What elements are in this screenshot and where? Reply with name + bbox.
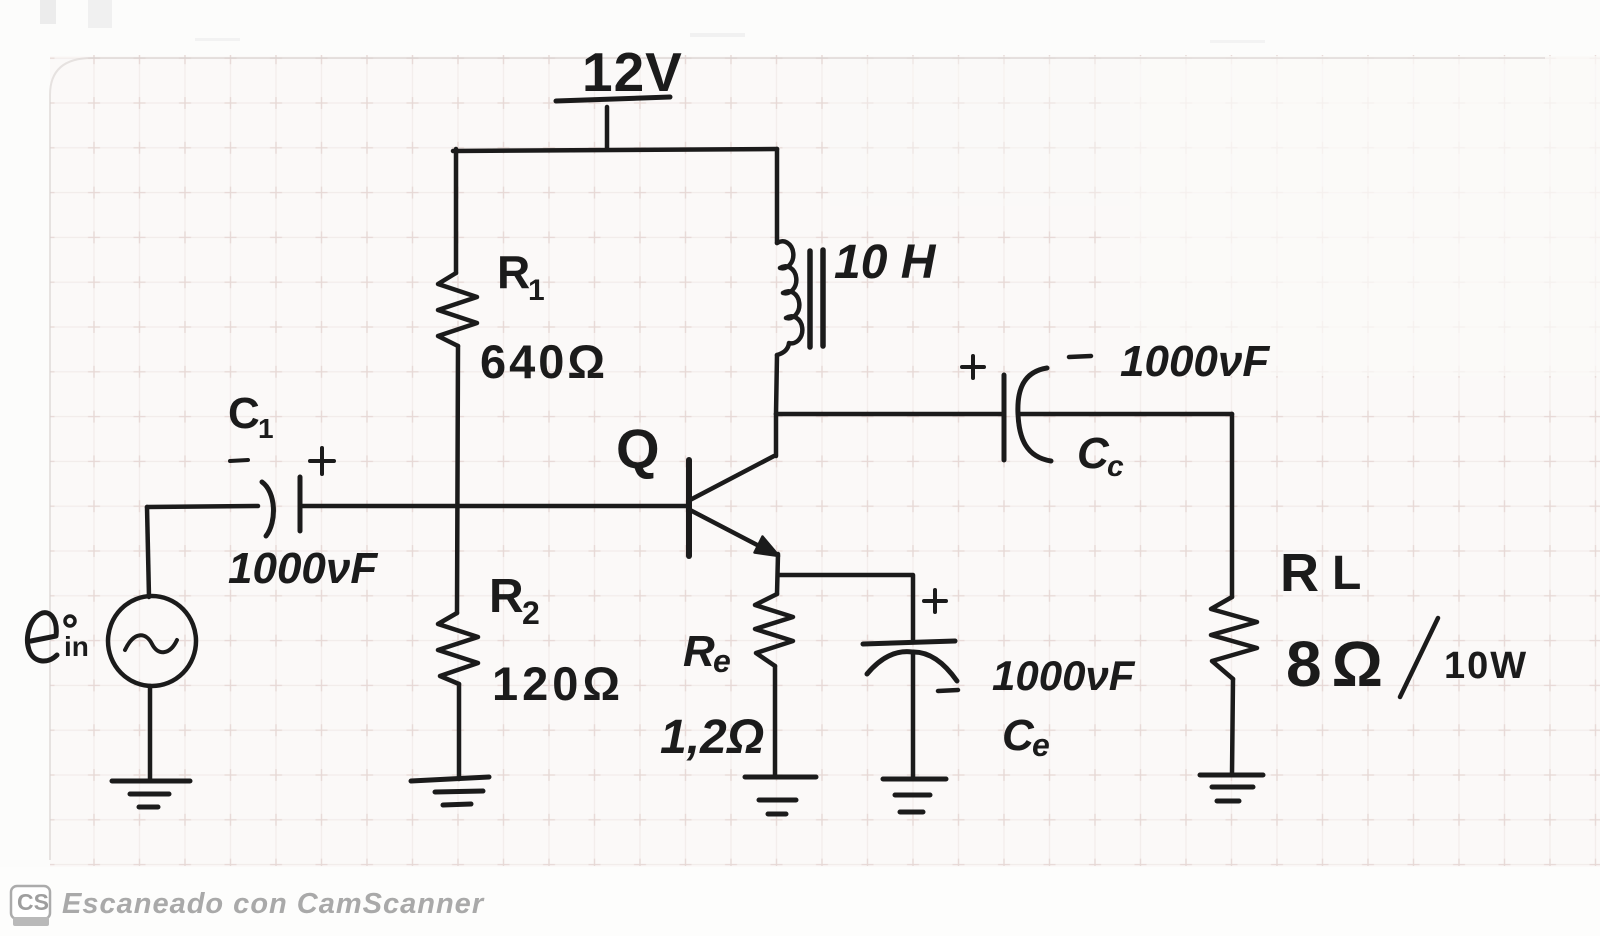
svg-text:1000νF: 1000νF <box>228 544 378 593</box>
svg-text:in: in <box>64 631 89 662</box>
label Re value 1,2 ohm <box>660 711 764 764</box>
wire left rail lower <box>457 684 462 779</box>
transistor Q base bar <box>686 460 692 556</box>
wire rail below coil <box>776 355 777 414</box>
svg-text:1,2Ω: 1,2Ω <box>660 711 764 764</box>
svg-text:10W: 10W <box>1444 645 1528 687</box>
svg-text:R: R <box>497 246 530 298</box>
label 120 ohm <box>492 657 624 710</box>
resistor R2 <box>438 613 478 684</box>
ground Re <box>745 777 816 814</box>
wire base <box>302 504 686 509</box>
capacitor Cc <box>1004 368 1051 461</box>
label Q <box>616 417 660 480</box>
label C1 minus <box>230 460 248 461</box>
svg-text:R: R <box>489 570 524 623</box>
wire source to ground <box>148 686 153 780</box>
resistor Re <box>755 594 793 666</box>
svg-text:1000νF: 1000νF <box>992 652 1136 699</box>
label ein dot <box>65 616 75 626</box>
svg-text:Q: Q <box>616 417 660 480</box>
svg-text:Escaneado con CamScanner: Escaneado con CamScanner <box>62 888 485 920</box>
label Re <box>683 627 731 679</box>
wire Ce to ground <box>911 654 916 777</box>
label Ce minus <box>938 690 958 691</box>
svg-text:640Ω: 640Ω <box>480 335 608 388</box>
wire load drop <box>1230 414 1235 597</box>
svg-text:L: L <box>1332 547 1361 600</box>
ground Ce <box>883 779 946 812</box>
transistor emitter stroke <box>690 510 763 548</box>
svg-text:1: 1 <box>528 274 545 307</box>
label RL slash <box>1400 618 1438 697</box>
inductor core lines <box>810 250 823 347</box>
transistor emitter arrow <box>755 537 780 557</box>
wire input left <box>147 506 258 507</box>
wire right rail upper <box>775 149 780 243</box>
label RL value 8ohm/10W <box>1286 628 1528 700</box>
label 10H <box>834 236 937 289</box>
label R1 <box>497 246 545 307</box>
ground R2 branch <box>411 777 489 805</box>
wire left rail middle <box>457 346 458 613</box>
wire emitter vertical <box>777 554 778 594</box>
label Ce <box>1002 711 1050 763</box>
ground source <box>112 781 190 807</box>
label Cc minus <box>1069 356 1091 357</box>
label 12V supply <box>582 41 683 103</box>
svg-text:12V: 12V <box>582 41 683 103</box>
label RL <box>1280 543 1361 603</box>
label ein <box>64 631 89 662</box>
wire Re to ground <box>773 666 778 776</box>
svg-text:C: C <box>1077 429 1110 478</box>
svg-text:C: C <box>1002 711 1035 760</box>
label R2 <box>489 570 540 631</box>
svg-text:1: 1 <box>258 413 274 444</box>
label C1 plus <box>310 448 334 474</box>
label C1 <box>228 389 274 444</box>
transistor collector stroke <box>690 456 774 500</box>
svg-text:CS: CS <box>17 889 49 915</box>
wire collector <box>774 414 779 456</box>
svg-text:C: C <box>228 389 260 438</box>
svg-text:2: 2 <box>522 595 540 631</box>
svg-text:1000νF: 1000νF <box>1120 337 1270 386</box>
svg-text:c: c <box>1107 450 1124 483</box>
power supply 12V bar <box>556 97 670 101</box>
wire cap to load <box>1020 412 1232 417</box>
svg-text:R: R <box>1280 543 1319 603</box>
wire output <box>776 412 1003 417</box>
svg-text:10 H: 10 H <box>834 236 937 289</box>
label 640 ohm <box>480 335 608 388</box>
capacitor Ce plates <box>863 641 957 681</box>
wire load to ground <box>1232 679 1233 774</box>
label Cc value 1000uF <box>1120 337 1270 386</box>
label C1 value 1000uF <box>228 544 378 593</box>
resistor R1 <box>438 273 477 346</box>
label Ce plus <box>924 590 946 612</box>
svg-text:8Ω: 8Ω <box>1286 628 1393 700</box>
camscanner watermark <box>11 886 485 926</box>
label Cc plus <box>962 356 984 378</box>
ground RL <box>1200 775 1263 801</box>
source ein circle <box>108 596 196 686</box>
svg-text:R: R <box>683 627 715 676</box>
wire source drop <box>147 507 149 597</box>
label Ce value 1000uF <box>992 652 1136 699</box>
svg-text:120Ω: 120Ω <box>492 657 624 710</box>
wire supply stub <box>605 107 610 149</box>
svg-text:e: e <box>713 643 731 679</box>
capacitor C1 <box>262 477 300 536</box>
wire left rail upper <box>454 149 459 273</box>
resistor RL <box>1211 597 1257 679</box>
wire emitter to Ce <box>778 575 913 641</box>
wire top rail <box>453 149 777 151</box>
label Cc <box>1077 429 1124 483</box>
source ein sine <box>125 635 177 652</box>
svg-text:e: e <box>1032 727 1050 763</box>
inductor 10H coil <box>777 241 802 355</box>
